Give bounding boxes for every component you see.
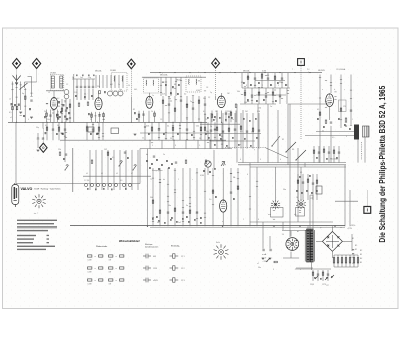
wire: [64, 122, 66, 140]
resistor legend: [88, 279, 92, 281]
wire: [338, 146, 340, 163]
svg-text:6: 6: [240, 159, 241, 161]
svg-text:u: u: [300, 269, 301, 271]
wire: [92, 79, 94, 86]
wire: [95, 150, 97, 176]
component: [136, 118, 138, 120]
svg-text:1k: 1k: [296, 197, 298, 199]
capacitor: [317, 274, 319, 275]
resistor legend: [88, 255, 92, 257]
resistor legend: [88, 267, 92, 269]
capacitor: [279, 95, 281, 96]
wire: [261, 73, 263, 88]
wire: [277, 110, 279, 163]
resistor: [345, 258, 347, 264]
capacitor: [265, 96, 267, 97]
tube V1 UCH81 triode: [50, 98, 57, 110]
svg-text:1n: 1n: [270, 106, 272, 108]
wire: [327, 270, 329, 281]
wire phono lead: [300, 66, 302, 90]
wire: [205, 133, 261, 135]
svg-text:L1: L1: [9, 99, 11, 101]
phono socket square: [298, 59, 305, 66]
component: [263, 99, 265, 101]
svg-text:30p: 30p: [36, 127, 39, 129]
svg-text:4p: 4p: [22, 93, 24, 95]
wire: [72, 148, 74, 192]
wire bus: [238, 162, 346, 164]
capacitor: [167, 212, 169, 213]
component: [11, 103, 13, 105]
svg-text:2: 2: [243, 219, 244, 221]
wire: [316, 174, 318, 200]
resistor: [98, 127, 100, 130]
wire: [256, 167, 258, 226]
capacitor Cel1: [263, 249, 264, 251]
svg-text:2a: 2a: [163, 154, 165, 156]
tube V6 UCL82 pentode: [220, 200, 227, 212]
wire: [95, 75, 97, 88]
wire: [221, 122, 223, 140]
text line: [17, 249, 46, 250]
wire: [125, 176, 127, 190]
wire dashed: [225, 147, 265, 149]
svg-text:0,1: 0,1: [112, 157, 114, 159]
resistor R8: [69, 104, 71, 107]
resistor: [307, 179, 309, 182]
svg-text:30: 30: [90, 119, 92, 121]
wire: [319, 75, 321, 91]
component: [182, 218, 184, 220]
resistor: [103, 114, 105, 117]
svg-text:C07: C07: [104, 149, 107, 151]
switch frame: [271, 208, 284, 218]
component: [91, 95, 93, 97]
svg-text:25: 25: [170, 138, 172, 140]
wire: [137, 150, 139, 176]
wire: [340, 75, 342, 91]
wire: [143, 111, 145, 123]
resistor legend: [99, 255, 103, 257]
svg-text:kondensatoren: kondensatoren: [145, 245, 158, 248]
svg-text:1: 1: [352, 119, 353, 121]
resistor R6: [91, 114, 93, 117]
wire: [307, 226, 309, 229]
svg-text:25p: 25p: [97, 86, 100, 88]
shield box: [88, 127, 94, 132]
svg-text:0,5: 0,5: [9, 112, 12, 114]
svg-text:2,2k: 2,2k: [74, 92, 77, 94]
wire: [222, 168, 224, 200]
text line: [17, 220, 57, 221]
resistor: [319, 112, 321, 115]
wire: [53, 110, 55, 123]
wire: [251, 88, 253, 104]
wire: [76, 89, 78, 101]
component: [60, 111, 62, 113]
wire: [113, 176, 115, 190]
component: [228, 116, 230, 118]
wire bus: [60, 139, 226, 141]
component: [214, 116, 216, 118]
component: [219, 117, 221, 119]
svg-text:0,5: 0,5: [137, 119, 139, 121]
wire: [148, 111, 150, 123]
wire: [113, 150, 115, 176]
svg-text:GmbH · Hamburg · Valvo Röhren: GmbH · Hamburg · Valvo Röhren: [34, 189, 61, 191]
junction: [279, 72, 280, 73]
legend row 3 capacitor: [143, 278, 151, 283]
wire: [234, 113, 236, 149]
svg-text:8: 8: [175, 145, 176, 147]
coil Losc1: [108, 91, 113, 96]
svg-text:6k8: 6k8: [134, 89, 137, 91]
wire: [349, 190, 351, 226]
component: [177, 93, 179, 95]
svg-text:1W: 1W: [109, 283, 112, 285]
wire: [242, 87, 290, 89]
svg-text:ba: ba: [146, 154, 148, 156]
label mark: [352, 249, 354, 250]
svg-text:2: 2: [308, 72, 309, 74]
svg-text:C5: C5: [254, 85, 256, 87]
wire: [86, 122, 88, 140]
capacitor: [281, 78, 283, 79]
svg-text:T1: T1: [150, 179, 152, 181]
wire: [162, 96, 164, 122]
capacitor: [92, 86, 94, 87]
component: [256, 137, 258, 139]
component: [125, 188, 127, 190]
resistor: [272, 92, 274, 95]
svg-text:5: 5: [278, 85, 279, 87]
wire: [20, 82, 22, 111]
text line: [17, 226, 57, 227]
wire: [207, 167, 209, 175]
wire: [289, 104, 291, 237]
wire: [24, 88, 26, 122]
resistor: [57, 114, 59, 117]
wire: [283, 257, 299, 259]
resistor: [274, 76, 276, 79]
wire: [76, 79, 78, 86]
svg-text:5p: 5p: [72, 77, 74, 79]
svg-text:50k: 50k: [206, 131, 209, 133]
wire: [318, 146, 320, 163]
svg-text:25p: 25p: [251, 132, 254, 134]
resistor: [16, 107, 18, 110]
component: [207, 117, 209, 119]
wire: [269, 236, 271, 249]
rotary switch wafer legend: [214, 244, 229, 260]
capacitor: [302, 182, 304, 183]
wire: [144, 122, 146, 140]
wire dashed speaker: [361, 142, 363, 160]
component: [200, 217, 202, 219]
svg-text:B2: B2: [355, 245, 357, 247]
wire: [189, 168, 191, 226]
svg-text:Wirkschaltbilder!: Wirkschaltbilder!: [119, 239, 140, 243]
wire: [209, 140, 211, 148]
junction: [234, 72, 235, 73]
legend row 3 electrolytic: [170, 278, 179, 282]
wire: [122, 75, 124, 88]
resistor: [59, 152, 61, 155]
wire: [228, 113, 230, 149]
wire: [213, 150, 215, 168]
component: [238, 144, 240, 146]
wire: [101, 150, 103, 176]
resistor: [252, 128, 254, 131]
component: [56, 133, 58, 135]
antenna symbol: [13, 75, 21, 85]
wire: [282, 230, 307, 232]
resistor: [357, 258, 359, 264]
component: [326, 158, 328, 160]
component: [171, 163, 173, 165]
component: [63, 158, 65, 160]
svg-text:VALVO: VALVO: [21, 187, 33, 191]
wire: [221, 140, 223, 148]
component: [66, 118, 68, 120]
component: [58, 101, 60, 103]
wire diagonal: [265, 148, 288, 159]
capacitor C1: [30, 100, 32, 101]
ground: [262, 258, 265, 260]
wire: [101, 176, 103, 190]
resistor: [316, 180, 318, 183]
legend row 2 electrolytic: [170, 266, 179, 270]
svg-text:50: 50: [57, 125, 59, 127]
resistor: [174, 208, 176, 211]
wire earth lead: [42, 129, 44, 143]
svg-text:5n: 5n: [186, 205, 188, 207]
wire: [73, 74, 75, 122]
wire: [328, 146, 330, 163]
wire: [274, 73, 276, 88]
component: [90, 133, 92, 135]
wire: [216, 111, 218, 123]
svg-text:F: F: [273, 269, 274, 271]
component: [170, 92, 172, 94]
svg-text:B5: B5: [360, 262, 362, 264]
capacitor: [124, 152, 126, 153]
resistor: [91, 160, 93, 163]
capacitor: [92, 129, 94, 130]
legend row 1 capacitor: [143, 254, 151, 259]
wire: [220, 93, 222, 96]
component: [161, 164, 163, 166]
resistor: [312, 272, 314, 275]
wire: [212, 168, 214, 226]
wire: [211, 111, 213, 123]
switch S4: [65, 165, 69, 170]
svg-text:C3: C3: [160, 119, 162, 121]
component: [176, 221, 178, 223]
wire FM lead: [130, 69, 132, 97]
svg-text:~ 220 V: ~ 220 V: [262, 261, 269, 263]
wire: [331, 251, 333, 258]
svg-text:Widerstände: Widerstände: [96, 245, 108, 248]
component: [14, 104, 16, 106]
contact: [114, 183, 117, 186]
resistor: [274, 261, 277, 263]
wire: [98, 122, 100, 140]
component: [301, 192, 303, 194]
output transformer: [354, 125, 359, 140]
text line: [17, 230, 48, 231]
svg-text:ba: ba: [163, 179, 165, 181]
svg-text:2k: 2k: [44, 111, 46, 113]
tube socket diagram: [32, 194, 45, 208]
component: [205, 133, 207, 135]
svg-text:2k2: 2k2: [245, 111, 248, 113]
tube V5 UL84: [326, 94, 334, 107]
component: [243, 82, 245, 84]
wire B+ top bus: [150, 72, 322, 74]
wire: [305, 135, 356, 137]
wire: [250, 221, 333, 223]
svg-text:B1: B1: [352, 238, 354, 240]
wire: [351, 234, 353, 251]
svg-text:6,8k: 6,8k: [146, 126, 149, 128]
svg-text:127: 127: [326, 285, 329, 287]
resistor: [297, 180, 299, 183]
component: [18, 104, 20, 106]
capacitor C2: [49, 115, 51, 116]
wire: [46, 122, 48, 140]
coil: [188, 79, 191, 84]
wire: [287, 73, 289, 88]
rotary switch wafer W2: [296, 199, 306, 209]
component: [226, 145, 228, 147]
wire: [31, 77, 33, 97]
svg-text:1n: 1n: [232, 119, 234, 121]
wire: [204, 113, 206, 149]
resistor legend: [99, 279, 103, 281]
wire: [337, 255, 339, 267]
svg-text:22k: 22k: [58, 149, 61, 151]
text line: [17, 242, 33, 243]
svg-text:4n7: 4n7: [157, 222, 160, 224]
resistor: [174, 108, 176, 111]
svg-text:170: 170: [343, 106, 346, 108]
wire: [147, 149, 149, 227]
shield box 2: [111, 128, 119, 134]
svg-text:4: 4: [247, 174, 248, 176]
resistor: [333, 258, 335, 264]
wire: [193, 122, 195, 140]
display tube drawing: [12, 183, 19, 207]
component: [225, 119, 227, 121]
resistor: [107, 152, 109, 155]
wire: [225, 111, 227, 123]
wire: [98, 91, 100, 98]
component: [285, 84, 287, 86]
capacitor C6: [64, 129, 66, 130]
svg-text:L5: L5: [48, 92, 50, 94]
wire: [267, 104, 269, 163]
resistor legend: [120, 255, 124, 257]
wire: [28, 76, 32, 78]
svg-text:k5: k5: [116, 173, 118, 175]
contact: [122, 183, 125, 186]
component: [178, 84, 180, 86]
svg-text:C2 1: C2 1: [181, 256, 185, 258]
wire: [15, 122, 17, 183]
coil: [152, 80, 155, 85]
svg-text:C2 3: C2 3: [181, 280, 185, 282]
wire: [345, 255, 347, 267]
svg-text:4,7k: 4,7k: [162, 94, 165, 96]
resistor: [211, 114, 213, 117]
svg-text:1k: 1k: [64, 102, 66, 104]
component: [191, 134, 193, 136]
capacitor: [251, 95, 253, 96]
wire: [131, 150, 133, 176]
wire: [247, 73, 249, 88]
capacitor: [267, 78, 269, 79]
wire: [179, 122, 181, 140]
junction: [189, 72, 190, 73]
resistor legend: [99, 267, 103, 269]
wire bus: [142, 76, 206, 78]
resistor: [185, 160, 187, 163]
capacitor: [42, 138, 44, 139]
capacitor: [222, 131, 224, 132]
resistor: [240, 126, 242, 129]
component: [243, 118, 245, 120]
wire: [235, 111, 237, 123]
wire: [185, 140, 187, 148]
band switch arrow: [20, 83, 28, 90]
component: [148, 133, 150, 135]
svg-text:1n: 1n: [152, 95, 154, 97]
wire: [158, 122, 160, 140]
wire: [130, 97, 132, 123]
component: [296, 190, 298, 192]
svg-text:a: a: [322, 89, 323, 91]
wire: [24, 82, 26, 88]
resistor legend: [120, 267, 124, 269]
text line: [17, 235, 36, 236]
wire: [84, 79, 86, 86]
svg-text:0,5M: 0,5M: [196, 90, 200, 92]
component: [215, 196, 217, 198]
resistor: [152, 200, 154, 203]
component: [316, 190, 318, 192]
wire: [207, 122, 209, 140]
tube V3 UF89: [146, 96, 153, 108]
wire: [175, 77, 177, 96]
text line: [17, 246, 55, 247]
svg-text:B3: B3: [360, 254, 362, 256]
component: [214, 168, 216, 170]
component: [158, 168, 160, 170]
component: [127, 157, 129, 159]
component: [323, 126, 325, 128]
svg-text:MB,5kA: MB,5kA: [243, 70, 250, 73]
svg-text:C9: C9: [205, 119, 207, 121]
resistor: [189, 210, 191, 213]
svg-text:se: se: [340, 227, 342, 229]
component: [149, 167, 151, 169]
svg-text:e: e: [222, 221, 223, 223]
component: [326, 277, 328, 279]
ground: [134, 134, 137, 136]
wire: [333, 255, 335, 267]
component: [62, 133, 64, 135]
